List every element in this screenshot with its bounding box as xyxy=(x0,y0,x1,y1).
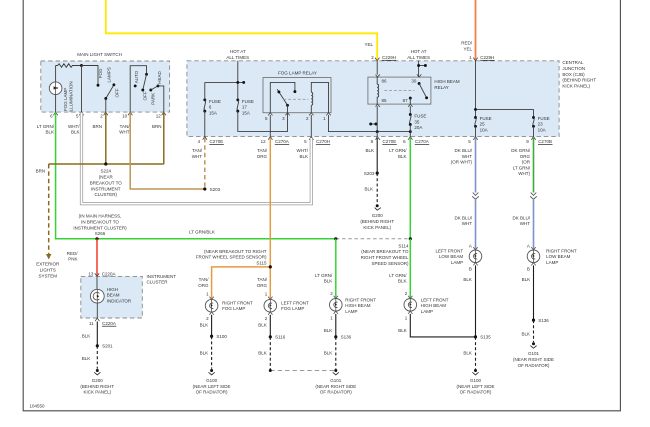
fuse 25 10A xyxy=(474,116,492,137)
svg-text:HOT AT: HOT AT xyxy=(411,49,427,54)
svg-text:AUTO: AUTO xyxy=(134,70,139,83)
ground G200 (CJB) xyxy=(360,204,394,230)
wire BLK dashed to G100 xyxy=(475,337,477,369)
svg-text:C220A: C220A xyxy=(102,271,116,276)
svg-text:OF RADIATOR): OF RADIATOR) xyxy=(196,390,228,395)
svg-text:BLK: BLK xyxy=(258,350,267,355)
wire BLK LF high beam to S135 xyxy=(410,314,475,337)
connector 9 C270B xyxy=(526,137,552,145)
svg-text:INSTRUMENT CLUSTER): INSTRUMENT CLUSTER) xyxy=(73,225,127,230)
illumination bulb xyxy=(49,66,62,113)
svg-text:BRN: BRN xyxy=(92,124,102,129)
svg-text:BLK: BLK xyxy=(398,279,407,284)
svg-text:17: 17 xyxy=(242,105,248,110)
svg-text:CLUSTER): CLUSTER) xyxy=(95,192,118,197)
svg-text:HIGH BEAM: HIGH BEAM xyxy=(421,303,447,308)
svg-text:30: 30 xyxy=(411,78,417,83)
svg-text:C270E: C270E xyxy=(210,139,224,144)
wire green to RF high beam lamp xyxy=(335,239,337,299)
connector 13 C220A xyxy=(88,271,116,276)
svg-text:LT GRN/: LT GRN/ xyxy=(389,273,407,278)
splice S135 xyxy=(474,335,477,338)
connector 4 C270E xyxy=(198,137,224,145)
svg-text:KICK PANEL): KICK PANEL) xyxy=(562,84,590,89)
svg-text:LAMPS: LAMPS xyxy=(107,67,112,82)
svg-text:INSTRUMENT: INSTRUMENT xyxy=(147,274,177,279)
svg-text:OFF: OFF xyxy=(114,88,119,97)
svg-text:B: B xyxy=(469,267,472,272)
splice S266 on green bus xyxy=(95,237,98,240)
wire BRN dashed to exterior lights xyxy=(48,164,50,255)
svg-text:LT GRN/: LT GRN/ xyxy=(389,148,407,153)
svg-text:RIGHT FRONT WHEEL: RIGHT FRONT WHEEL xyxy=(361,255,409,260)
connector 11 C220A xyxy=(89,318,116,326)
splice S115 xyxy=(269,265,272,268)
svg-text:LEFT FRONT: LEFT FRONT xyxy=(421,297,449,302)
svg-text:LT GRN/: LT GRN/ xyxy=(315,273,333,278)
svg-text:WHT/: WHT/ xyxy=(68,124,80,129)
svg-text:C220A: C220A xyxy=(102,321,116,326)
svg-text:(BEHIND RIGHT: (BEHIND RIGHT xyxy=(80,384,114,389)
svg-text:BLK: BLK xyxy=(365,148,374,153)
svg-text:G100: G100 xyxy=(470,378,482,383)
instrument cluster box xyxy=(81,276,143,318)
wire BLK from 8 C270E xyxy=(376,138,378,173)
connector 12 C270A xyxy=(261,137,290,145)
svg-text:SPEED SENSOR): SPEED SENSOR) xyxy=(371,261,409,266)
svg-text:INDICATOR: INDICATOR xyxy=(107,299,132,304)
ground G200 (indicator) xyxy=(80,369,114,395)
svg-text:(IN MAIN HARNESS,: (IN MAIN HARNESS, xyxy=(79,214,122,219)
label S115 xyxy=(196,249,267,266)
svg-text:85: 85 xyxy=(382,98,388,103)
wire YEL feed xyxy=(106,0,377,60)
svg-text:(OR WHT): (OR WHT) xyxy=(451,160,473,165)
svg-text:FOG: FOG xyxy=(98,68,103,78)
svg-text:G101: G101 xyxy=(528,351,540,356)
svg-text:RIGHT FRONT: RIGHT FRONT xyxy=(222,300,253,305)
wire LT GRN/BLK from pin6 xyxy=(56,113,336,239)
svg-text:(NEAR BREAKOUT TO: (NEAR BREAKOUT TO xyxy=(361,249,409,254)
svg-text:BLK: BLK xyxy=(463,350,472,355)
svg-text:ALL TIMES: ALL TIMES xyxy=(226,55,249,60)
svg-text:WHT): WHT) xyxy=(518,171,530,176)
park-head blade xyxy=(149,84,163,112)
svg-text:ORG: ORG xyxy=(257,154,268,159)
svg-text:FOG LAMP: FOG LAMP xyxy=(281,306,304,311)
svg-text:S266: S266 xyxy=(95,231,106,236)
svg-text:BEAM: BEAM xyxy=(107,293,120,298)
svg-text:G100: G100 xyxy=(206,378,218,383)
splice S203 (CJB ground) xyxy=(376,172,379,175)
svg-text:LEFT FRONT: LEFT FRONT xyxy=(436,248,464,253)
fog relay mech link xyxy=(284,98,309,100)
wire BLK indicator xyxy=(96,322,98,346)
svg-text:TAN/: TAN/ xyxy=(199,277,210,282)
svg-text:CLUSTER: CLUSTER xyxy=(147,280,169,285)
svg-text:B: B xyxy=(527,267,530,272)
MLS pin numbers xyxy=(50,114,161,119)
splice S136 xyxy=(334,335,337,338)
HB relay coil xyxy=(377,77,378,104)
svg-text:(NEAR RIGHT SIDE: (NEAR RIGHT SIDE xyxy=(513,357,554,362)
svg-text:LIGHTS: LIGHTS xyxy=(40,268,56,273)
wire DK GRN/ORG from fuse23 xyxy=(533,138,535,193)
svg-text:10: 10 xyxy=(122,114,128,119)
wire DK BLU/WHT to LF low beam xyxy=(475,199,477,250)
MLS pin arrows xyxy=(53,112,166,115)
lamp LF low beam xyxy=(436,244,482,272)
svg-text:SYSTEM: SYSTEM xyxy=(38,273,57,278)
svg-text:BLK: BLK xyxy=(82,356,91,361)
lamp LF high beam xyxy=(404,291,449,321)
svg-text:BLK: BLK xyxy=(200,350,209,355)
wire BLK dashed to G200 xyxy=(96,346,98,369)
svg-text:BLK: BLK xyxy=(258,322,267,327)
svg-text:15A: 15A xyxy=(209,111,217,116)
wire WHT/BLK pin5 to C270H xyxy=(82,113,312,204)
svg-text:OF RADIATOR): OF RADIATOR) xyxy=(320,390,352,395)
selector blade xyxy=(141,73,148,92)
svg-text:S115: S115 xyxy=(256,261,267,266)
svg-text:BLK: BLK xyxy=(364,187,373,192)
svg-text:S203: S203 xyxy=(210,187,221,192)
fuse 17 15A xyxy=(236,98,254,115)
svg-text:BLK: BLK xyxy=(522,277,531,282)
svg-text:DK GRN/: DK GRN/ xyxy=(511,148,531,153)
wire TAN/WHT dashed from 4 C270E xyxy=(204,138,206,189)
svg-text:FRONT WHEEL SPEED SENSOR): FRONT WHEEL SPEED SENSOR) xyxy=(196,255,267,260)
svg-text:BLK: BLK xyxy=(398,154,407,159)
wire RED/PNK xyxy=(96,239,98,276)
HB relay switch xyxy=(409,82,428,104)
splice S116 xyxy=(269,335,272,338)
ground G101 (right side) xyxy=(513,342,554,368)
wire BLK RF low beam to S136 xyxy=(533,265,535,320)
svg-text:BLK: BLK xyxy=(324,328,333,333)
svg-text:RED/: RED/ xyxy=(461,41,473,46)
connector 8 C270E xyxy=(371,137,397,145)
lamp RF low beam xyxy=(527,244,577,272)
dashed link to S114 xyxy=(336,238,410,240)
svg-text:KICK PANEL): KICK PANEL) xyxy=(363,225,391,230)
svg-text:(NEAR LEFT SIDE: (NEAR LEFT SIDE xyxy=(457,384,495,389)
wire relay pin5 to 12 C270A xyxy=(269,115,271,137)
svg-text:G101: G101 xyxy=(330,378,342,383)
wire relay pin2 to 5 C270H xyxy=(310,115,312,137)
svg-text:EXTERIOR: EXTERIOR xyxy=(36,262,60,267)
svg-text:RIGHT FRONT: RIGHT FRONT xyxy=(345,297,376,302)
wire BRN pin2 xyxy=(105,113,107,165)
svg-text:S136: S136 xyxy=(341,335,352,340)
svg-text:DK BLU/: DK BLU/ xyxy=(454,148,472,153)
svg-text:BLK: BLK xyxy=(45,130,54,135)
svg-text:LOW BEAM: LOW BEAM xyxy=(439,254,464,259)
svg-text:BRN: BRN xyxy=(36,169,46,174)
node AUTO contact xyxy=(134,84,137,87)
svg-text:RIGHT FRONT: RIGHT FRONT xyxy=(546,248,577,253)
svg-text:(BEHIND RIGHT: (BEHIND RIGHT xyxy=(562,78,596,83)
svg-text:10A: 10A xyxy=(538,127,546,132)
wire TAN/WHT pin10 to S203 xyxy=(130,113,205,190)
svg-text:BLK: BLK xyxy=(200,322,209,327)
inline connector (right low beam) xyxy=(530,193,537,200)
wire BRN pin12 xyxy=(163,113,165,165)
svg-text:LAMP: LAMP xyxy=(421,309,433,314)
svg-text:HIGH BEAM: HIGH BEAM xyxy=(345,303,371,308)
wire BLK RF fog to S100 xyxy=(211,315,213,336)
svg-text:BRN: BRN xyxy=(152,124,162,129)
svg-text:LOW BEAM: LOW BEAM xyxy=(546,254,571,259)
fuse 35 20A xyxy=(409,106,427,136)
svg-text:HIGH BEAM: HIGH BEAM xyxy=(434,79,460,84)
svg-text:LT GRN/BLK: LT GRN/BLK xyxy=(189,229,215,234)
svg-text:A: A xyxy=(469,244,472,249)
svg-text:HIGH: HIGH xyxy=(107,287,118,292)
svg-text:C270E: C270E xyxy=(383,139,397,144)
wire RED/YEL feed xyxy=(475,0,477,60)
svg-text:LT GRN/: LT GRN/ xyxy=(37,124,55,129)
svg-text:WHT: WHT xyxy=(462,154,472,159)
svg-text:YEL: YEL xyxy=(463,47,472,52)
svg-text:25: 25 xyxy=(480,122,486,127)
wire C229H-2 to HB relay pin 86 xyxy=(376,61,378,75)
svg-text:11: 11 xyxy=(89,321,94,326)
svg-text:C229H: C229H xyxy=(382,55,396,60)
high beam relay box xyxy=(368,77,431,104)
svg-text:BLK: BLK xyxy=(398,328,407,333)
svg-text:G200: G200 xyxy=(372,213,384,218)
svg-text:LAMP: LAMP xyxy=(546,260,558,265)
fog switch blade xyxy=(97,83,116,112)
svg-text:S224: S224 xyxy=(101,169,112,174)
svg-text:YEL: YEL xyxy=(364,42,373,47)
label EXTERIOR LIGHTS SYSTEM xyxy=(36,262,60,279)
splice S136 (right) xyxy=(532,319,535,322)
svg-text:WHT: WHT xyxy=(192,154,202,159)
fog relay coil xyxy=(311,82,328,112)
headlamp selector bracket xyxy=(130,66,146,112)
svg-text:BLK: BLK xyxy=(463,277,472,282)
svg-text:BLK: BLK xyxy=(299,154,308,159)
svg-text:C270A: C270A xyxy=(415,139,429,144)
wire LT GRN/BLK from 6 C270A xyxy=(409,138,411,239)
svg-text:ORG: ORG xyxy=(257,283,268,288)
svg-text:WHT: WHT xyxy=(462,221,472,226)
svg-text:20A: 20A xyxy=(414,125,422,130)
svg-text:LEFT FRONT: LEFT FRONT xyxy=(281,300,309,305)
svg-text:35: 35 xyxy=(414,119,420,124)
wire BRN S224 bus xyxy=(49,163,164,165)
svg-text:(BEHIND RIGHT: (BEHIND RIGHT xyxy=(360,219,394,224)
svg-text:C270H: C270H xyxy=(316,139,330,144)
svg-text:S203: S203 xyxy=(364,171,375,176)
wire DK BLU/WHT from fuse25 xyxy=(475,138,477,193)
splice S201 xyxy=(96,344,99,347)
svg-text:(OR: (OR xyxy=(522,160,531,165)
wire TAN/ORG to LF fog lamp xyxy=(269,267,271,300)
svg-text:C229H: C229H xyxy=(480,55,494,60)
wire relay pin1 coil ground bus xyxy=(329,115,411,132)
wire green to LF high beam lamp xyxy=(409,239,411,299)
connector C229H pin 1 xyxy=(469,55,495,61)
fog relay switch blade xyxy=(277,89,287,105)
svg-text:FUSE: FUSE xyxy=(242,99,254,104)
svg-text:BLK: BLK xyxy=(324,350,333,355)
node green bus to RF high beam xyxy=(334,237,337,240)
splice S224 xyxy=(104,162,107,165)
svg-text:KICK PANEL): KICK PANEL) xyxy=(83,390,111,395)
wire BLK dashed to G101 xyxy=(335,337,337,369)
svg-text:HEAD: HEAD xyxy=(157,70,162,83)
svg-text:FOG LAMP: FOG LAMP xyxy=(63,88,68,111)
connector 5 C270H xyxy=(304,137,330,145)
wire TAN/ORG from 12 C270A xyxy=(269,138,271,267)
svg-text:S136: S136 xyxy=(538,318,549,323)
svg-text:C270A: C270A xyxy=(275,139,289,144)
svg-text:FUSE: FUSE xyxy=(414,114,426,119)
svg-text:BLK: BLK xyxy=(82,333,91,338)
svg-text:FUSE: FUSE xyxy=(480,116,492,121)
splice S114 xyxy=(409,237,412,240)
svg-text:S114: S114 xyxy=(398,243,409,248)
wire HB relay pin85 to 8 C270E xyxy=(369,106,377,136)
wire fuse17 to relay pin3 xyxy=(238,111,288,131)
svg-text:BREAKOUT TO: BREAKOUT TO xyxy=(90,180,123,185)
svg-text:ORG: ORG xyxy=(198,283,209,288)
svg-text:DK BLU/: DK BLU/ xyxy=(512,215,530,220)
svg-text:TAN/: TAN/ xyxy=(192,148,203,153)
fuse 23 10A xyxy=(532,116,550,137)
node pin5 top xyxy=(80,64,83,67)
wire BLK dashed to G200 xyxy=(376,173,378,204)
wire to fog switch contact xyxy=(82,66,99,85)
wire BLK dashed LF fog to G101 xyxy=(258,337,336,372)
svg-text:S201: S201 xyxy=(102,344,113,349)
svg-text:S135: S135 xyxy=(480,335,491,340)
svg-text:C270B: C270B xyxy=(538,139,552,144)
main light switch box xyxy=(41,61,170,112)
wire BLK dashed to G100 xyxy=(211,336,213,369)
svg-text:ALL TIMES: ALL TIMES xyxy=(407,55,430,60)
svg-text:TAN/: TAN/ xyxy=(120,124,131,129)
ground G100 (RF fog) xyxy=(193,369,231,395)
fuse 6 15A xyxy=(203,82,221,136)
svg-text:FOG LAMP RELAY: FOG LAMP RELAY xyxy=(278,71,317,76)
svg-text:PARK: PARK xyxy=(151,93,156,105)
lamp RF high beam xyxy=(330,291,377,321)
svg-text:LAMP: LAMP xyxy=(451,260,463,265)
wire BLK LF low beam to S135 xyxy=(475,265,477,337)
svg-text:IN BREAKOUT TO: IN BREAKOUT TO xyxy=(81,219,119,224)
svg-text:BLK: BLK xyxy=(521,331,530,336)
resistor xyxy=(56,64,82,68)
label HIGH BEAM INDICATOR xyxy=(107,287,132,304)
svg-text:A: A xyxy=(527,244,530,249)
svg-text:HOT AT: HOT AT xyxy=(230,49,246,54)
svg-text:15A: 15A xyxy=(242,111,250,116)
svg-text:MAIN LIGHT SWITCH: MAIN LIGHT SWITCH xyxy=(77,52,122,57)
HB relay pin arrows xyxy=(376,74,422,106)
wire hot feed to HB relay pin 30 xyxy=(417,61,427,77)
wire TAN/ORG to RF fog lamp xyxy=(212,267,271,300)
svg-text:WHT: WHT xyxy=(520,221,530,226)
fog relay pin arrows and numbers xyxy=(265,113,331,122)
HB relay mech link xyxy=(384,90,414,92)
svg-text:12: 12 xyxy=(261,139,267,144)
svg-text:G200: G200 xyxy=(92,378,104,383)
svg-text:PNK: PNK xyxy=(68,257,77,262)
svg-text:BOX (CJB): BOX (CJB) xyxy=(562,72,585,77)
svg-text:FUSE: FUSE xyxy=(538,116,550,121)
inline connector (left low beam) xyxy=(472,193,479,200)
wire hot feed bus left xyxy=(205,61,245,100)
svg-text:BLK: BLK xyxy=(71,130,80,135)
lamp RF fog xyxy=(205,292,253,322)
ground G101 (high beams) xyxy=(315,369,356,395)
high beam indicator bulb xyxy=(90,276,104,318)
svg-text:(NEAR LEFT SIDE: (NEAR LEFT SIDE xyxy=(193,384,231,389)
wire BLK RF high beam to S136 xyxy=(335,314,337,337)
lamp LF fog xyxy=(264,292,309,322)
svg-text:ILLUMINATION: ILLUMINATION xyxy=(69,81,74,112)
fog relay switch bracket pin5 xyxy=(270,82,295,112)
connector C229H pin 2 xyxy=(371,55,396,61)
svg-text:ORG: ORG xyxy=(520,154,531,159)
svg-text:DK BLU/: DK BLU/ xyxy=(454,215,472,220)
svg-text:TAN/: TAN/ xyxy=(257,148,268,153)
svg-text:104550: 104550 xyxy=(30,403,46,408)
svg-text:12: 12 xyxy=(156,114,162,119)
svg-text:BLK: BLK xyxy=(324,279,333,284)
MLS wire labels xyxy=(37,124,162,135)
central junction box CJB xyxy=(187,61,559,137)
svg-text:CENTRAL: CENTRAL xyxy=(562,60,584,65)
svg-text:87: 87 xyxy=(403,98,409,103)
svg-text:LAMP: LAMP xyxy=(345,309,357,314)
svg-text:JUNCTION: JUNCTION xyxy=(562,66,585,71)
svg-text:OFF: OFF xyxy=(142,91,147,100)
splice S203 xyxy=(203,187,206,190)
svg-text:(NEAR BREAKOUT TO RIGHT: (NEAR BREAKOUT TO RIGHT xyxy=(204,249,267,254)
svg-text:S100: S100 xyxy=(216,334,227,339)
ground G100 (left side) xyxy=(457,369,495,395)
svg-text:LT GRN/: LT GRN/ xyxy=(513,165,531,170)
svg-text:INSTRUMENT: INSTRUMENT xyxy=(91,186,121,191)
svg-text:86: 86 xyxy=(382,78,388,83)
wire DK BLU/WHT to RF low beam xyxy=(533,199,535,250)
splice S100 xyxy=(210,335,213,338)
wire RED/YEL inside CJB xyxy=(474,61,533,118)
svg-text:23: 23 xyxy=(538,122,544,127)
svg-text:RELAY: RELAY xyxy=(434,85,448,90)
svg-text:WHT/: WHT/ xyxy=(297,148,309,153)
svg-text:OF RADIATOR): OF RADIATOR) xyxy=(518,363,550,368)
svg-text:10A: 10A xyxy=(480,127,488,132)
svg-text:S116: S116 xyxy=(275,335,286,340)
connector 6 C270A xyxy=(403,137,429,145)
connector 5 C270B xyxy=(468,137,477,145)
wire BLK LF fog to S116 xyxy=(269,315,271,337)
svg-text:WHT: WHT xyxy=(119,130,129,135)
wire BLK dashed to G101 xyxy=(533,320,535,342)
label CENTRAL JUNCTION BOX xyxy=(562,60,596,89)
svg-text:TAN/: TAN/ xyxy=(257,277,268,282)
svg-text:FUSE: FUSE xyxy=(209,99,221,104)
svg-text:FOG LAMP: FOG LAMP xyxy=(222,306,245,311)
svg-text:13: 13 xyxy=(88,271,94,276)
fog lamp relay box xyxy=(263,78,331,113)
